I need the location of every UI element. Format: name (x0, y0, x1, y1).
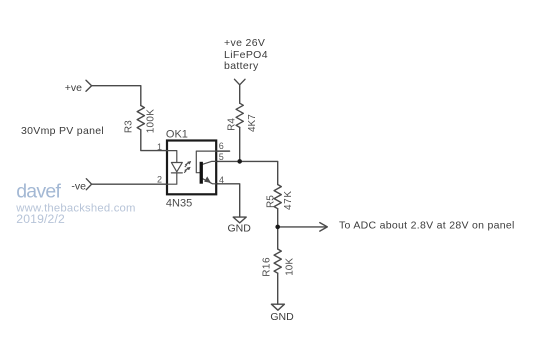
svg-text:LiFePO4: LiFePO4 (224, 49, 268, 61)
svg-text:+ve: +ve (65, 82, 82, 94)
wire pin 4 to GND (216, 184, 240, 217)
svg-text:5: 5 (219, 152, 224, 162)
svg-text:R5: R5 (266, 195, 277, 208)
wire +ve to R3 (92, 86, 141, 106)
wire R3 to pin 1 (141, 130, 167, 151)
svg-text:GND: GND (270, 311, 294, 323)
wire R4 to node A (239, 127, 241, 161)
svg-text:GND: GND (228, 222, 252, 234)
svg-text:10K: 10K (284, 258, 295, 276)
ground symbol bottom (271, 304, 284, 310)
wire pin 5 net to R5 (216, 161, 278, 184)
wire R16 to GND (277, 273, 279, 304)
connector pinhead -ve (86, 179, 91, 190)
photon arrow 2 (184, 167, 190, 173)
wire base pin 6 internal (196, 151, 229, 173)
wire LED cathode internal (166, 173, 177, 184)
svg-text:R3: R3 (123, 120, 134, 133)
connector pinhead battery (235, 79, 246, 103)
resistor R4 (236, 103, 243, 127)
emitter arrow (205, 177, 210, 182)
LED cathode bar (171, 172, 182, 174)
svg-text:30Vmp PV panel: 30Vmp PV panel (21, 125, 104, 137)
wire LED anode internal (166, 151, 177, 163)
svg-text:47K: 47K (283, 190, 294, 210)
svg-text:-ve: -ve (71, 180, 86, 192)
op-to-coupler OK1 box (167, 141, 216, 195)
svg-text:100K: 100K (146, 109, 157, 134)
wire emitter to pin 4 (203, 179, 216, 184)
svg-text:1: 1 (157, 142, 162, 152)
wire R5 to node B (277, 209, 279, 227)
wire pin 6 stub (216, 150, 229, 152)
resistor R5 (274, 185, 281, 209)
svg-text:To ADC about 2.8V at 28V on pa: To ADC about 2.8V at 28V on panel (339, 220, 515, 232)
svg-text:4K7: 4K7 (247, 114, 258, 132)
arrowhead to ADC (320, 223, 328, 232)
node B junction dot (275, 225, 280, 230)
wire node B to R16 (277, 227, 279, 249)
svg-text:4N35: 4N35 (166, 198, 192, 210)
svg-text:R16: R16 (261, 257, 272, 277)
LED diode triangle (171, 163, 182, 172)
wire collector to pin 5 (203, 161, 216, 164)
connector pinhead +ve (86, 80, 92, 91)
wire arrow to ADC (278, 226, 327, 228)
svg-text:battery: battery (224, 60, 259, 72)
wire -ve to pin 2 (92, 183, 167, 185)
resistor R16 (274, 249, 281, 273)
svg-text:4: 4 (219, 175, 224, 185)
svg-text:2: 2 (157, 174, 162, 184)
svg-text:6: 6 (219, 141, 224, 151)
svg-text:+ve 26V: +ve 26V (224, 37, 265, 49)
svg-text:2019/2/2: 2019/2/2 (16, 212, 65, 226)
svg-text:davef: davef (16, 181, 61, 203)
transistor Q base bar (200, 162, 203, 184)
svg-text:OK1: OK1 (166, 129, 188, 141)
resistor R3 (137, 106, 144, 130)
photon arrow 1 (185, 161, 191, 167)
ground symbol near pin 4 (233, 217, 246, 223)
node A junction dot (237, 159, 242, 164)
svg-text:R4: R4 (226, 118, 237, 131)
